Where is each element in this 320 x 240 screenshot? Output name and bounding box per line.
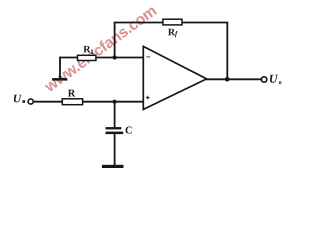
svg-text:U: U xyxy=(269,72,279,86)
svg-text:o: o xyxy=(279,80,282,86)
svg-text:R: R xyxy=(68,88,76,99)
svg-text:1: 1 xyxy=(90,48,94,56)
svg-text:U: U xyxy=(13,93,22,105)
svg-text:C: C xyxy=(125,125,133,136)
